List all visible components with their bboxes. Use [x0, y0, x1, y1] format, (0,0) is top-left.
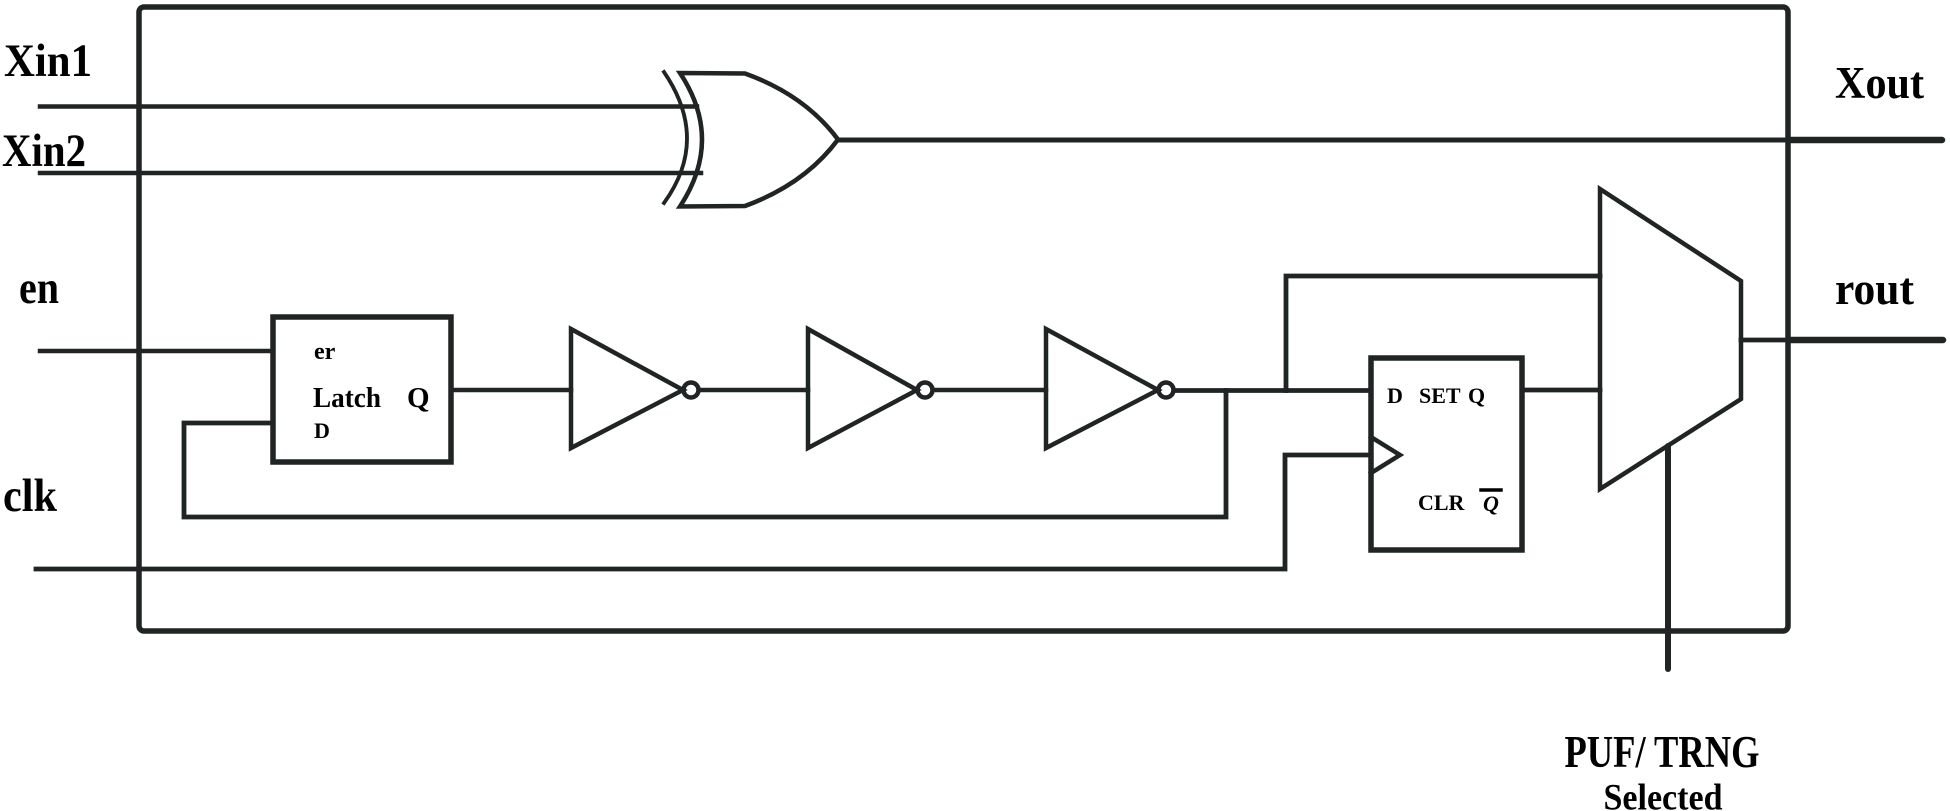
inverter U5 [1046, 329, 1174, 448]
label clk [3, 470, 58, 522]
flip-flop pin label Qbar [1481, 490, 1501, 516]
mux U7 [1600, 189, 1741, 489]
outer boundary box [139, 7, 1788, 631]
feedback wire to latch D [184, 391, 1226, 518]
svg-text:D: D [314, 418, 330, 443]
latch pin label Q [407, 382, 430, 414]
D flip-flop U6 [1371, 358, 1522, 550]
wire Xout (outside stub) [1788, 137, 1942, 144]
wire inverter2 to inverter3 [933, 388, 1046, 393]
clk wire [36, 455, 1371, 569]
label Xin2 [2, 125, 86, 177]
latch pin label er [314, 339, 336, 365]
svg-text:er: er [314, 339, 336, 365]
label rout [1835, 263, 1915, 314]
svg-text:Xin1: Xin1 [4, 35, 92, 87]
latch pin label D [314, 418, 330, 443]
svg-text:Q: Q [407, 382, 430, 414]
wire inverter3 to flip-flop D [1174, 388, 1371, 393]
wire Xin2 [40, 171, 701, 176]
wire en [40, 349, 273, 354]
flip-flop pin label Q [1468, 383, 1485, 408]
wire Xout (inside) [838, 138, 1788, 143]
rout wire (inside) [1741, 338, 1788, 343]
wire flip-flop Q to mux input B [1522, 388, 1600, 393]
svg-text:SET: SET [1419, 383, 1461, 408]
flip-flop pin label CLR [1418, 490, 1466, 515]
inverter U4 [808, 329, 933, 448]
svg-text:Xin2: Xin2 [2, 125, 86, 177]
latch U2 [273, 317, 451, 462]
label Xin1 [4, 35, 92, 87]
wire inverter1 to inverter2 [699, 388, 808, 393]
svg-text:Q: Q [1483, 491, 1499, 516]
svg-text:Xout: Xout [1835, 58, 1924, 108]
svg-text:Latch: Latch [313, 383, 381, 414]
wire latch Q to inverter 1 [451, 388, 571, 393]
flip-flop pin label SET [1419, 383, 1461, 408]
flip-flop pin label D [1387, 383, 1403, 408]
svg-text:en: en [19, 262, 59, 314]
label en [19, 262, 59, 314]
mux select wire [1665, 446, 1671, 669]
wire node to mux input A [1286, 276, 1600, 391]
label PUF/ TRNG [1565, 727, 1760, 777]
latch label Latch [313, 383, 381, 414]
svg-text:Q: Q [1468, 383, 1485, 408]
inverter U3 [571, 329, 699, 448]
XOR gate U1 [664, 72, 838, 207]
svg-text:Selected: Selected [1604, 778, 1723, 811]
rout wire (outside stub) [1788, 337, 1943, 344]
svg-text:D: D [1387, 383, 1403, 408]
svg-text:rout: rout [1835, 263, 1915, 314]
wire Xin1 [40, 104, 697, 109]
svg-text:clk: clk [3, 470, 58, 522]
label Xout [1835, 58, 1924, 108]
svg-text:PUF/ TRNG: PUF/ TRNG [1565, 727, 1760, 777]
label Selected [1604, 778, 1723, 811]
svg-text:CLR: CLR [1418, 490, 1466, 515]
